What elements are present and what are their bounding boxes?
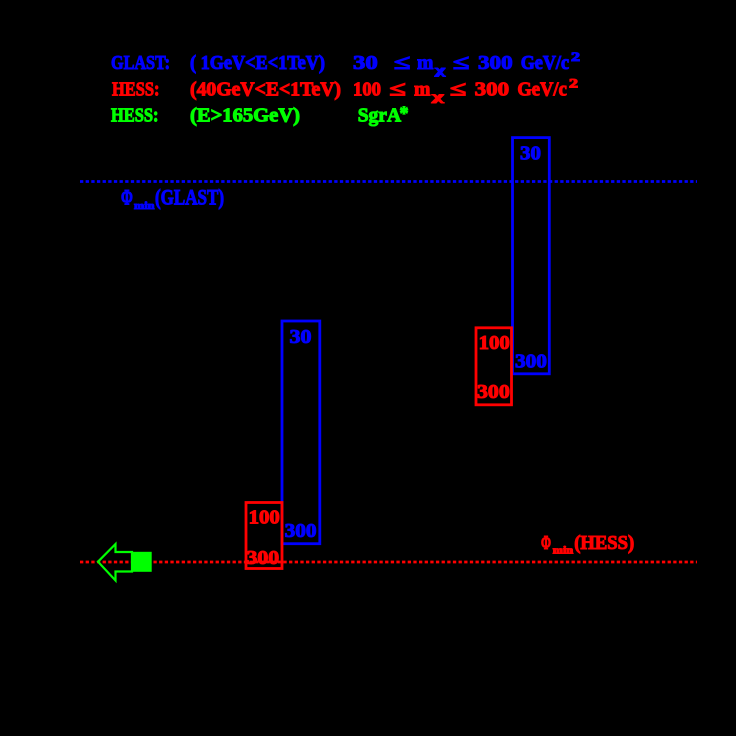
green square marker [132, 552, 152, 572]
svg-text:HESS: (E>165GeV) SgrA *: HESS: (E>165GeV) SgrA * [111, 103, 409, 127]
blue box B (upper right, 30-300 GLAST) [513, 138, 550, 374]
svg-text:30: 30 [290, 326, 312, 348]
green arrow (upper limit, outline) [98, 544, 132, 581]
red box A (middle, 100-300 HESS) [246, 503, 282, 569]
svg-text:100: 100 [479, 332, 510, 354]
blue box A (middle, 30-300 GLAST) [282, 321, 320, 544]
svg-text:300: 300 [285, 520, 317, 542]
blue dotted line Phi_min(GLAST) level [80, 180, 697, 183]
svg-text:300: 300 [477, 381, 510, 403]
svg-text:30: 30 [520, 143, 541, 165]
red box B (upper right, 100-300 HESS) [476, 328, 512, 405]
svg-text:300: 300 [515, 351, 547, 373]
svg-text:100: 100 [249, 506, 280, 528]
red dotted line Phi_min(HESS) level [80, 561, 697, 564]
svg-text:300: 300 [247, 547, 280, 569]
